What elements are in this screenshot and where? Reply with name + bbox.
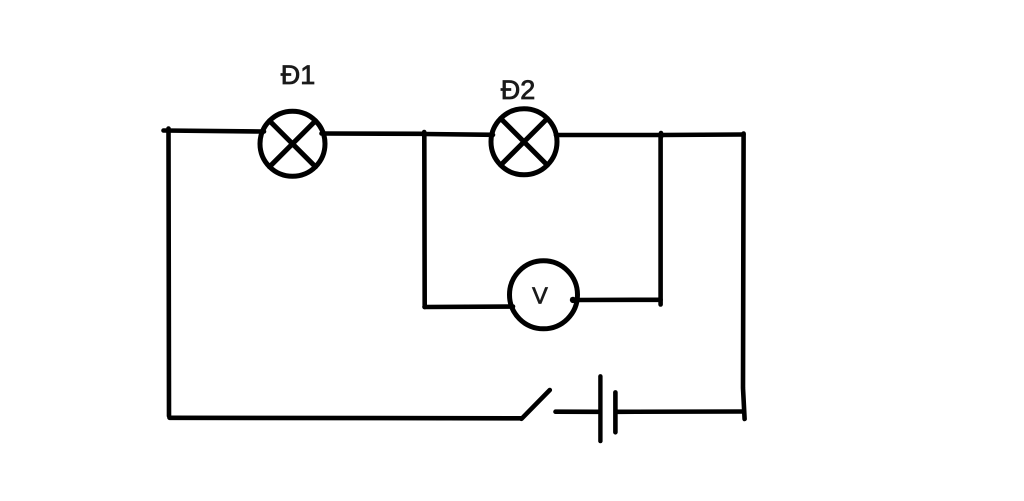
wire left vertical: [166, 129, 171, 417]
wire top-left horizontal: [164, 131, 265, 132]
svg-text:V: V: [532, 283, 548, 309]
battery B1 short plate: [613, 392, 618, 432]
wire junction A to Đ2: [424, 132, 493, 137]
svg-text:Đ1: Đ1: [281, 60, 316, 90]
wire voltmeter right lead: [574, 297, 661, 302]
wire junction B down to voltmeter right lead: [658, 135, 663, 305]
battery B1 long plate: [598, 376, 602, 441]
wire junction A down to voltmeter branch: [422, 133, 427, 307]
svg-text:Đ2: Đ2: [501, 75, 536, 105]
voltmeter right lead start blob: [570, 297, 576, 303]
node B junction: [659, 133, 664, 137]
switch K1 blade (open): [522, 390, 550, 419]
wire voltmeter left lead: [425, 304, 514, 309]
wire Đ2 to junction B: [556, 133, 661, 138]
voltmeter U1: [510, 261, 578, 329]
node A junction: [422, 132, 427, 136]
wire battery to right vertical: [618, 409, 744, 414]
lamp Đ2: [491, 109, 557, 175]
switch K1 fixed contact wire: [556, 409, 599, 414]
wire bottom horizontal: [170, 415, 522, 420]
wire junction B to top-right corner: [661, 132, 744, 137]
lamp Đ1: [260, 111, 325, 176]
wire Đ1 to junction A: [322, 131, 425, 136]
wire right vertical: [743, 134, 745, 420]
